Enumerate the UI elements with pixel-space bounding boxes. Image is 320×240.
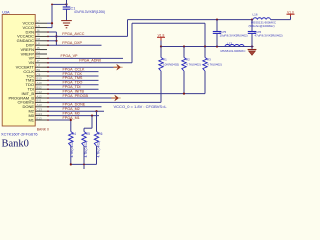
pin VN J7 [28,59,47,65]
inductor L16 [253,18,271,20]
junction rail [160,45,162,47]
wire off-page up at x66.5 [66,0,68,4]
wire FPGA_VP row [47,57,123,59]
svg-text:FPGA_CCLK: FPGA_CCLK [63,67,85,71]
svg-text:FPGA_M0: FPGA_M0 [63,111,80,115]
port arrow FPGA_PROGB [112,97,116,99]
svg-text:FPGA_M2: FPGA_M2 [63,107,80,111]
wire FPGA_CCLK row [47,71,99,73]
svg-text:FPGA_VP: FPGA_VP [61,54,79,58]
svg-text:C13: C13 [37,108,43,112]
wire FPGA_TMS row [47,79,99,81]
pin TDI B12 [28,86,47,92]
svg-text:4.7K(0402): 4.7K(0402) [70,141,74,158]
inductor L13 [225,45,244,47]
IC U3A body [2,15,35,127]
svg-text:R3: R3 [207,58,211,62]
svg-text:D13: D13 [37,112,43,116]
power flag V1.0 [287,13,295,15]
svg-text:M1: M1 [28,117,34,122]
svg-text:FPGA_ADN0: FPGA_ADN0 [79,59,101,63]
svg-text:Bank0: Bank0 [2,139,29,150]
pin INIT_B C12 [22,90,47,96]
wire VN rail y23.2 [132,22,205,24]
svg-text:R2: R2 [186,58,190,62]
pin VCCO L6 [22,24,47,30]
pin TMS B10 [26,77,47,83]
pin VREFN J5 [20,46,47,52]
svg-text:10KR(0402): 10KR(0402) [163,62,179,66]
capacitor C1 [66,4,68,6]
svg-text:C12: C12 [37,90,43,94]
svg-text:VCCO_0 = 1.8V : CFGBVS=L: VCCO_0 = 1.8V : CFGBVS=L [114,104,168,109]
svg-text:K8: K8 [37,37,41,41]
svg-text:47uF/6.3V/X5R(1206): 47uF/6.3V/X5R(1206) [74,10,105,14]
svg-text:4.7K(0402): 4.7K(0402) [207,62,222,66]
wire AVCC vertical x127.5 [127,20,129,37]
power flag V1.8 [157,36,165,38]
pin CFGBVS B11 [18,99,47,105]
wire FPGA_TDO row [47,84,99,86]
svg-text:L6: L6 [37,24,41,28]
wire FPGA_M1 row [47,119,71,121]
junction R2 INIT_B [183,93,185,95]
wire AVCC rail y19.6 [128,19,254,21]
wire CFGBVS net row [47,101,161,103]
wire VCCO pins to vertical [47,22,52,24]
pin TDO A10 [26,81,47,87]
svg-text:K5: K5 [37,50,41,54]
svg-text:FPGA_TDI: FPGA_TDI [63,85,81,89]
svg-text:B11: B11 [37,99,42,103]
pin M2 C13 [28,108,47,114]
pin VP K6 [29,55,47,61]
pin M1 E13 [28,116,47,122]
wire VCCBATT row [47,66,114,68]
svg-text:L8: L8 [37,42,41,46]
wire V1.8 stem [160,41,162,47]
svg-text:R4: R4 [72,132,76,136]
pin DONE A13 [22,103,47,109]
svg-text:A10: A10 [37,81,43,85]
svg-text:B9: B9 [37,68,41,72]
pin VREFP K5 [21,50,47,56]
pin VCCBATT U7 [16,64,47,70]
svg-text:4.7K(0402): 4.7K(0402) [84,141,88,158]
junction VCCO [51,22,53,24]
svg-text:J8: J8 [37,33,40,37]
pin GNDADC K8 [17,37,47,43]
resistor R6 [94,132,98,147]
svg-text:E13: E13 [37,116,43,120]
svg-text:FPGA_DONE: FPGA_DONE [63,103,86,107]
wire GNDADC to tie [47,40,56,42]
wire FPGA_DXP row [47,44,102,46]
wire FPGA_INITB row [47,93,205,95]
resistor R2 [183,47,185,58]
wire VN vertical x132 [131,23,133,63]
svg-text:L13: L13 [227,41,232,45]
pin M0 D13 [28,112,47,118]
svg-text:R6: R6 [98,132,102,136]
svg-text:FPGA_PROGB: FPGA_PROGB [63,94,89,98]
pin PROGRAM_B A12 [8,94,47,100]
junction M2 tap [95,110,97,112]
junction bottom [70,163,72,165]
resistor R1 [160,47,162,58]
svg-text:FPGA_TMS: FPGA_TMS [63,76,83,80]
junction M1 [70,119,72,121]
svg-text:V1.8: V1.8 [158,33,165,37]
svg-text:J5: J5 [37,46,40,50]
wire vertical x52 [51,4,53,27]
capacitor C176 [251,20,253,32]
svg-text:4.7K(0402): 4.7K(0402) [186,62,201,66]
junction AVCC rail caps [216,19,218,21]
pin VCCO L7 [22,20,47,26]
junction top [51,4,53,6]
svg-text:C9: C9 [37,72,41,76]
wire FPGA_AVCC row (VCCADC) [47,35,128,37]
wire L16 to V1.0 [271,19,291,21]
svg-text:B10: B10 [37,77,43,81]
svg-text:MSS5131-900MXC: MSS5131-900MXC [221,49,246,53]
svg-text:FPGA_INITB: FPGA_INITB [63,89,85,93]
ground earth GND2 [251,47,253,50]
wire FPGA_PROGB row [47,97,112,99]
svg-text:FPGA_TDO: FPGA_TDO [63,81,83,85]
svg-text:J6: J6 [37,28,40,32]
resistor R5 [82,132,86,147]
svg-text:U3A: U3A [2,11,10,15]
svg-text:V1.0: V1.0 [287,10,294,14]
pin VCCADC J8 [17,33,47,39]
pin CCLK B9 [23,68,47,74]
svg-text:FPGA_TCK: FPGA_TCK [63,72,83,76]
pin DXP L8 [26,42,47,48]
svg-text:A12: A12 [37,94,43,98]
wire FPGA_DONE row [47,106,102,108]
svg-text:FPGA_AVCC: FPGA_AVCC [62,32,84,36]
wire FPGA_ADN0 row (VN) [47,62,132,64]
svg-text:10uF/6.3V/X5R(0402): 10uF/6.3V/X5R(0402) [220,34,248,38]
pin TCK C9 [26,72,47,78]
wire FPGA_TCK row [47,75,99,77]
resistor R3 [204,47,206,58]
svg-text:FPGA_DXP: FPGA_DXP [62,41,82,45]
wire FPGA_M0 row [47,115,99,117]
pin DXN J6 [26,28,47,34]
wire FPGA_TDI row [47,88,99,90]
svg-text:U7: U7 [37,64,41,68]
wire bottom bus [71,163,97,165]
resistor R4 [69,132,73,147]
svg-text:47uF/6.3V/X5R(0402): 47uF/6.3V/X5R(0402) [255,34,283,38]
svg-text:R1: R1 [163,58,167,62]
svg-text:L16: L16 [253,13,258,17]
rail y46.5 [161,46,254,48]
wire M1 to R4 [70,120,72,132]
wire VN drop x205 [204,23,206,46]
svg-text:XC7K160T-2FFG676: XC7K160T-2FFG676 [1,132,38,137]
svg-text:L7: L7 [37,20,41,24]
capacitor C175 [216,20,218,32]
svg-text:4.7K(0402): 4.7K(0402) [97,141,101,158]
junction DXN tie [55,35,57,37]
wire top horizontal to C1 [52,3,67,5]
svg-text:R5: R5 [86,132,90,136]
port arrow VCCBATT [114,66,118,68]
wire DXN jog [47,31,56,33]
wire M2 to R6 [96,111,98,131]
svg-text:(500ohm@100MHz): (500ohm@100MHz) [249,24,275,28]
junction M0 tap [91,115,93,117]
svg-text:BANK 0: BANK 0 [37,127,49,131]
svg-text:A13: A13 [37,103,43,107]
ground bar GND1 [61,20,72,22]
wire M0 to R5 jog [91,116,93,129]
svg-text:B12: B12 [37,86,43,90]
svg-text:K6: K6 [37,55,41,59]
svg-text:J7: J7 [37,59,40,63]
wire FPGA_M2 row [47,110,104,112]
